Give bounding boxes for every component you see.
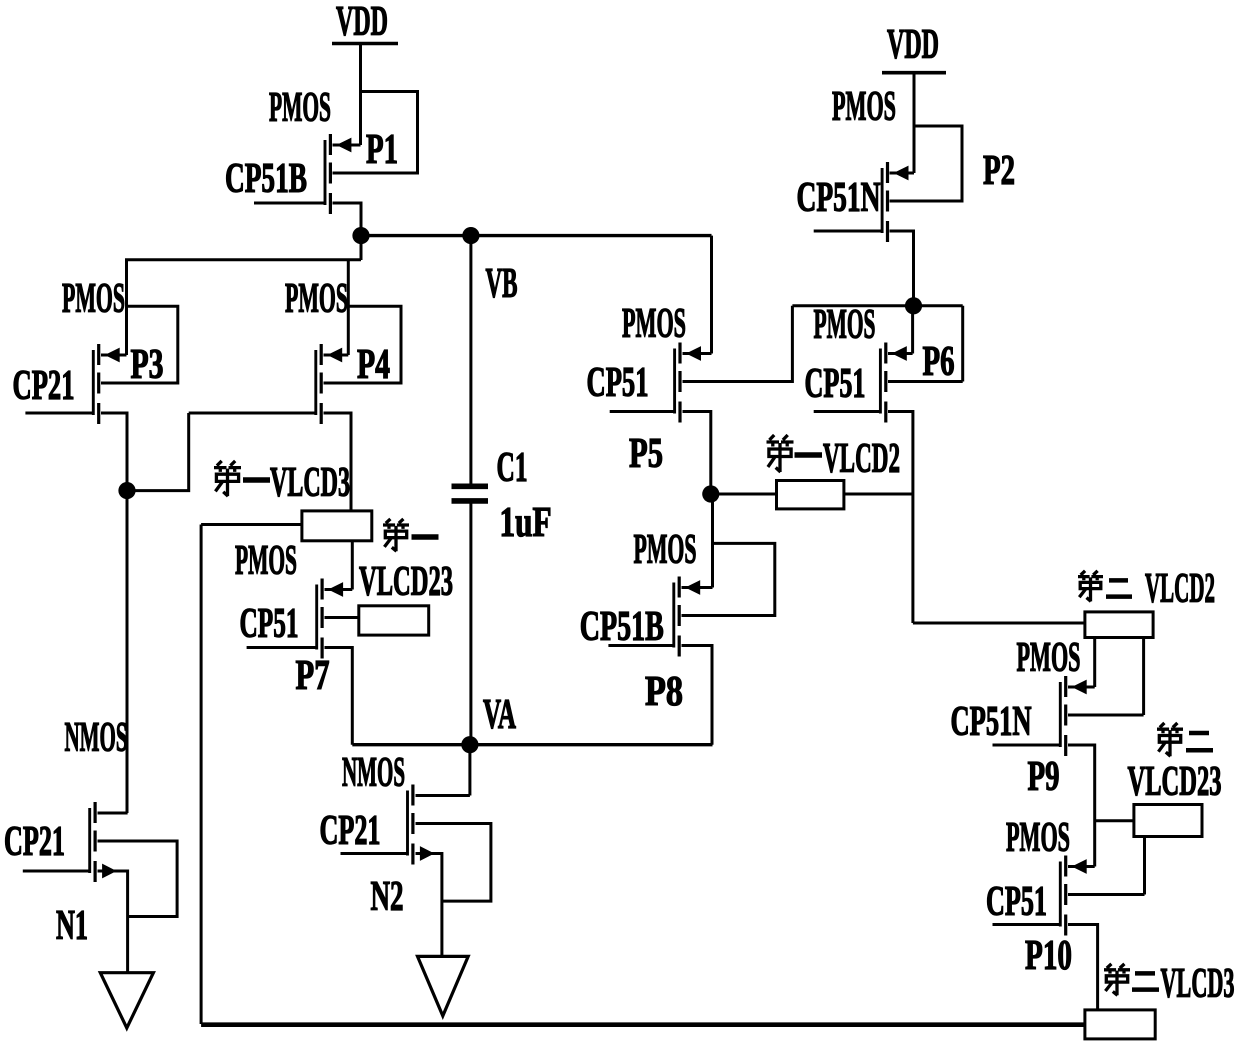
- svg-text:P2: P2: [983, 148, 1015, 194]
- svg-text:CP51: CP51: [587, 360, 649, 406]
- wire P9 drain branch to second VLCD23 box: [1095, 819, 1134, 822]
- svg-text:VA: VA: [483, 692, 516, 738]
- transistor P5 (PMOS): [675, 343, 701, 423]
- transistor P1 (PMOS): [325, 134, 351, 214]
- label CP51 (P7 gate net): [240, 601, 299, 647]
- node mirror junction (P3 drain / P4 gate / N1 drain): [118, 482, 135, 499]
- wire P7 drain down to VA line: [325, 648, 353, 745]
- wire VB node down to C1: [469, 236, 472, 484]
- wire N1 source down to ground: [98, 871, 128, 973]
- wire P4 drain to VLCD3 box: [324, 413, 352, 511]
- label CP51B (P1 gate net): [225, 156, 307, 202]
- wire P8 source up to VLCD2 node: [682, 494, 713, 588]
- wire P10 gate lead: [993, 923, 1061, 926]
- label P5: [629, 431, 663, 477]
- transistor P4 (PMOS): [316, 344, 342, 424]
- ground (N1): [100, 973, 153, 1028]
- svg-text:PMOS: PMOS: [285, 276, 348, 322]
- transistor P9 (PMOS): [1060, 676, 1086, 756]
- svg-text:1uF: 1uF: [500, 500, 552, 546]
- svg-text:CP51N: CP51N: [951, 699, 1032, 745]
- label NMOS (N2): [342, 750, 405, 796]
- label CP51N (P9 gate net): [951, 699, 1032, 745]
- svg-text:PMOS: PMOS: [269, 85, 331, 131]
- svg-text:PMOS: PMOS: [1017, 635, 1081, 681]
- label N1: [56, 903, 88, 949]
- label CP21 (N2 gate net): [320, 808, 381, 854]
- wire P4 gate lead: [189, 412, 316, 415]
- svg-text:CP51B: CP51B: [580, 604, 664, 650]
- label 第二VLCD3: [1104, 961, 1235, 1007]
- wire P4 bulk loop to source: [324, 306, 402, 383]
- label PMOS (P4): [285, 276, 348, 322]
- wire P3 bulk loop to source: [101, 306, 178, 383]
- svg-text:NMOS: NMOS: [65, 715, 128, 761]
- wire P8 gate lead: [608, 644, 673, 647]
- label C1: [497, 445, 528, 491]
- node VB junction: [462, 227, 479, 244]
- wire bias line P5 body to P6 body: [792, 304, 962, 307]
- node first VLCD2 junction: [702, 485, 719, 502]
- wire P5 drain down to VLCD2 node: [683, 412, 711, 495]
- terminal box second VLCD2: [1085, 612, 1153, 638]
- svg-text:P8: P8: [645, 669, 683, 715]
- svg-text:VLCD2: VLCD2: [823, 436, 900, 482]
- label VLCD23 (second): [1128, 759, 1222, 805]
- capacitor C1: [452, 486, 489, 501]
- label CP21 (P3 gate net): [13, 363, 75, 409]
- wire first VLCD2 node to P6 drain line: [711, 493, 913, 496]
- wire P9 gate lead: [993, 744, 1061, 747]
- label VLCD23 (first): [359, 559, 453, 605]
- label CP51 (P10 gate net): [986, 879, 1047, 925]
- transistor P2 (PMOS): [882, 162, 908, 242]
- svg-text:P7: P7: [296, 653, 330, 699]
- label P1: [366, 127, 398, 173]
- svg-text:P6: P6: [923, 339, 955, 385]
- svg-text:P4: P4: [357, 342, 390, 388]
- wire VLCD3 box left terminal to bottom rail: [201, 525, 302, 1025]
- label CP51B (P8 gate net): [580, 604, 664, 650]
- svg-text:PMOS: PMOS: [62, 276, 125, 322]
- label P6: [923, 339, 955, 385]
- svg-text:P10: P10: [1025, 933, 1072, 979]
- wire P7 gate lead: [247, 646, 317, 649]
- transistor N1 (NMOS): [90, 802, 117, 882]
- wire P2 drain down to bias node: [890, 231, 914, 306]
- svg-text:PMOS: PMOS: [622, 301, 686, 347]
- node junction P2 drain / P6 source: [905, 297, 922, 314]
- svg-text:CP51N: CP51N: [797, 175, 881, 221]
- wire N2 bulk loop to source: [416, 824, 491, 902]
- label N2: [371, 874, 404, 920]
- power VDD (right): [882, 22, 946, 73]
- wire P1 bulk loop to source: [333, 92, 418, 174]
- wire P1 drain to VB rail: [333, 203, 362, 260]
- label P8: [645, 669, 683, 715]
- wire N1 bulk loop to source: [98, 841, 178, 917]
- label CP51 (P5 gate net): [587, 360, 649, 406]
- wire VA line: [352, 743, 712, 746]
- wire N2 source down to ground: [416, 854, 442, 957]
- svg-text:CP21: CP21: [13, 363, 75, 409]
- wire P10 source contact: [1068, 865, 1095, 868]
- svg-text:CP21: CP21: [4, 819, 65, 865]
- transistor P8 (PMOS): [674, 577, 700, 657]
- transistor P7 (PMOS): [317, 579, 343, 659]
- svg-text:PMOS: PMOS: [235, 538, 297, 584]
- wire N2 gate lead: [341, 852, 408, 855]
- wire P8 bulk loop to source: [682, 543, 775, 615]
- terminal box first VLCD3: [302, 511, 372, 541]
- wire P5 bulk up to bias line: [683, 306, 793, 382]
- wire P6 source up to bias junction: [888, 306, 913, 354]
- label NMOS (N1): [65, 715, 128, 761]
- label PMOS (P3): [62, 276, 125, 322]
- svg-text:PMOS: PMOS: [832, 84, 896, 130]
- label VB: [486, 261, 518, 307]
- svg-text:P5: P5: [629, 431, 663, 477]
- svg-text:VLCD2: VLCD2: [1145, 566, 1215, 612]
- node VA junction: [461, 736, 478, 753]
- label PMOS (P10): [1006, 815, 1070, 861]
- terminal box first VLCD23: [359, 606, 429, 635]
- label CP51N (P2 gate net): [797, 175, 881, 221]
- wire C1 down to VA node: [469, 503, 472, 745]
- wire left rail to P3/P4 sources: [127, 260, 362, 355]
- wire P7 source up to VLCD3 box: [325, 541, 353, 590]
- wire N2 drain up to VA node: [416, 745, 470, 796]
- wire P1 source to VDD: [333, 44, 361, 146]
- ground (N2): [418, 956, 469, 1016]
- svg-text:CP51B: CP51B: [225, 156, 307, 202]
- label P4: [357, 342, 390, 388]
- wire P5 gate lead: [610, 410, 675, 413]
- label PMOS (P9): [1017, 635, 1081, 681]
- svg-text:VB: VB: [486, 261, 518, 307]
- wire P4 source contact: [324, 354, 349, 357]
- label VA: [483, 692, 516, 738]
- wire P3 source contact: [101, 354, 127, 357]
- label P9: [1028, 754, 1060, 800]
- transistor P10 (PMOS): [1060, 856, 1086, 936]
- wire P7 bulk to first VLCD23 box: [325, 616, 359, 619]
- svg-text:PMOS: PMOS: [634, 527, 697, 573]
- label PMOS (P8): [634, 527, 697, 573]
- label P3: [131, 342, 164, 388]
- wire P3 drain down to mirror node: [101, 413, 127, 813]
- wire P8 drain down to VA line: [682, 646, 713, 745]
- svg-text:VLCD3: VLCD3: [1161, 961, 1235, 1007]
- svg-text:P9: P9: [1028, 754, 1060, 800]
- svg-text:CP51: CP51: [805, 361, 866, 407]
- wire bottom rail (VLCD3 left terminal to second VLCD3 box): [201, 1022, 1085, 1027]
- label PMOS (P1): [269, 85, 331, 131]
- wire P9 source up to second VLCD2 box: [1068, 638, 1095, 688]
- wire P1 gate lead: [254, 202, 325, 205]
- svg-text:N2: N2: [371, 874, 404, 920]
- svg-text:PMOS: PMOS: [1006, 815, 1070, 861]
- svg-text:VLCD3: VLCD3: [270, 460, 350, 506]
- svg-text:VDD: VDD: [887, 22, 939, 68]
- svg-text:P1: P1: [366, 127, 398, 173]
- wire P9 drain down to P10 source: [1068, 745, 1095, 867]
- wire P2 gate lead: [814, 230, 883, 233]
- label P2: [983, 148, 1015, 194]
- wire mirror node to P4 gate: [127, 413, 189, 491]
- svg-text:VLCD23: VLCD23: [359, 559, 453, 605]
- label 第一 (first): [383, 519, 439, 551]
- wire P9 bulk loop to second VLCD2 box: [1068, 638, 1144, 716]
- wire P6 bulk loop to bias line: [888, 306, 963, 382]
- label PMOS (P7): [235, 538, 297, 584]
- label PMOS (P2): [832, 84, 896, 130]
- wire P4 source to left rail: [347, 260, 350, 355]
- svg-text:P3: P3: [131, 342, 164, 388]
- label CP21 (N1 gate net): [4, 819, 65, 865]
- svg-text:CP21: CP21: [320, 808, 381, 854]
- svg-text:VLCD23: VLCD23: [1128, 759, 1222, 805]
- wire P2 bulk loop to source: [890, 126, 963, 201]
- label 第一VLCD2: [767, 435, 901, 482]
- svg-text:CP51: CP51: [986, 879, 1047, 925]
- wire P6 gate lead: [814, 410, 881, 413]
- transistor P6 (PMOS): [880, 343, 906, 423]
- terminal box second VLCD3: [1085, 1010, 1155, 1039]
- terminal box first VLCD2: [777, 481, 844, 509]
- power VDD (left): [332, 0, 398, 45]
- svg-text:NMOS: NMOS: [342, 750, 405, 796]
- wire P5 source to VB rail: [683, 236, 712, 354]
- transistor P3 (PMOS): [93, 344, 119, 424]
- wire P10 bulk loop to second VLCD23 box: [1068, 837, 1145, 895]
- svg-text:CP51: CP51: [240, 601, 299, 647]
- label PMOS (P6): [814, 302, 876, 348]
- wire P10 drain down to second VLCD3 box: [1068, 925, 1098, 1011]
- svg-text:PMOS: PMOS: [814, 302, 876, 348]
- wire P6 drain down to second VLCD2 box: [888, 412, 1085, 624]
- svg-text:N1: N1: [56, 903, 88, 949]
- wire N1 gate lead: [23, 870, 90, 873]
- node junction at P1 drain: [352, 227, 369, 244]
- label 1uF (C1 value): [500, 500, 552, 546]
- label 第二 (second): [1157, 723, 1213, 756]
- transistor N2 (NMOS): [408, 785, 435, 865]
- label PMOS (P5): [622, 301, 686, 347]
- wire P3 gate lead: [25, 412, 93, 415]
- svg-text:VDD: VDD: [336, 0, 388, 45]
- wire N1 drain contact to mirror line: [98, 812, 128, 815]
- wire VB rail (P1 drain to P5 source): [361, 234, 712, 237]
- label 第一VLCD3: [214, 460, 350, 506]
- label P10: [1025, 933, 1072, 979]
- label P7: [296, 653, 330, 699]
- terminal box second VLCD23: [1134, 805, 1202, 837]
- label 第二VLCD2: [1078, 566, 1215, 612]
- label CP51 (P6 gate net): [805, 361, 866, 407]
- svg-text:C1: C1: [497, 445, 528, 491]
- wire P2 source to VDD: [890, 73, 915, 173]
